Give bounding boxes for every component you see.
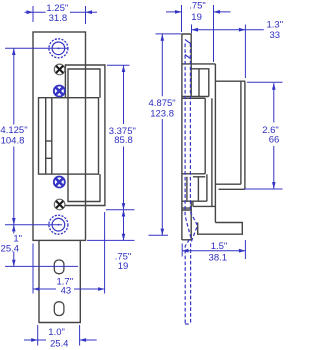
case shelf inner — [215, 183, 241, 185]
svg-text:38.1: 38.1 — [209, 252, 228, 263]
body top — [182, 63, 216, 65]
keeper bottom second — [193, 176, 205, 178]
svg-text:104.8: 104.8 — [1, 135, 25, 146]
screw blue bottom — [54, 177, 65, 188]
svg-text:19: 19 — [118, 261, 129, 272]
dimension 3.375/85.8 — [106, 65, 135, 210]
bolt box — [191, 69, 209, 97]
mounting hole bottom — [5, 215, 68, 234]
plate bottom caps — [182, 208, 191, 210]
dimension 1.25/31.8 — [25, 6, 98, 24]
plate top break marks — [185, 40, 191, 59]
bottom hook — [198, 223, 243, 235]
keeper box — [39, 98, 99, 174]
dimension .75/19 right view — [166, 5, 231, 62]
case shelf outer — [219, 188, 245, 190]
plate bottom cap — [182, 239, 191, 241]
dimension 1.0/25.4 bottom — [24, 325, 97, 346]
keeper bottom side — [182, 173, 205, 175]
svg-text:1.0": 1.0" — [48, 327, 65, 338]
svg-text:123.8: 123.8 — [150, 109, 174, 120]
tab slot 2 — [54, 302, 64, 316]
mounting hole top — [5, 39, 68, 58]
case front inner — [240, 81, 242, 184]
slot centerline — [5, 265, 78, 267]
keeper tick 1 — [46, 140, 52, 142]
dimension 4.125/104.8 — [13, 48, 15, 224]
strike body outer — [63, 65, 105, 206]
svg-text:25.4: 25.4 — [50, 339, 69, 350]
svg-text:4.875": 4.875" — [149, 98, 176, 109]
keeper tick 2 — [46, 157, 52, 159]
svg-text:4.125": 4.125" — [0, 125, 27, 136]
tab slot 1 — [54, 260, 64, 274]
mid wall — [204, 98, 206, 174]
strike body inner — [68, 69, 100, 202]
svg-text:1.3": 1.3" — [267, 19, 284, 30]
screw blue top — [54, 86, 65, 97]
dimension 1.5/38.1 — [182, 240, 245, 259]
svg-text:1.5": 1.5" — [211, 241, 228, 252]
mounting tab — [39, 240, 80, 322]
lower lip — [193, 201, 216, 206]
svg-text:43: 43 — [61, 286, 72, 297]
svg-text:31.8: 31.8 — [49, 13, 68, 24]
plate profile — [182, 34, 191, 240]
keeper divider 2 — [51, 98, 53, 174]
screw black top — [54, 64, 65, 75]
svg-text:33: 33 — [270, 30, 281, 41]
faceplate — [33, 32, 86, 240]
keeper top side — [182, 96, 209, 98]
dimension 1.3/33 — [192, 25, 264, 79]
lower pocket — [182, 174, 207, 201]
dimension .75/19 left view — [87, 210, 135, 241]
svg-text:.75": .75" — [189, 0, 206, 11]
svg-text:85.8: 85.8 — [114, 135, 133, 146]
screw black bottom — [54, 199, 65, 210]
case top — [215, 80, 245, 82]
dimension 2.6/66 — [244, 82, 283, 189]
inner front wall — [211, 98, 213, 206]
hidden tab dashed — [185, 44, 197, 325]
svg-text:25.4: 25.4 — [1, 244, 20, 255]
case front outer — [244, 81, 246, 189]
svg-text:19: 19 — [191, 12, 202, 23]
dimension 4.875/123.8 — [149, 34, 182, 235]
svg-text:66: 66 — [269, 135, 280, 146]
keeper top second — [182, 97, 205, 99]
keeper divider 1 — [45, 98, 47, 174]
dimension 1.7/43 — [33, 212, 105, 294]
body front edge — [214, 64, 216, 223]
dimension 1/25.4 — [13, 225, 15, 267]
